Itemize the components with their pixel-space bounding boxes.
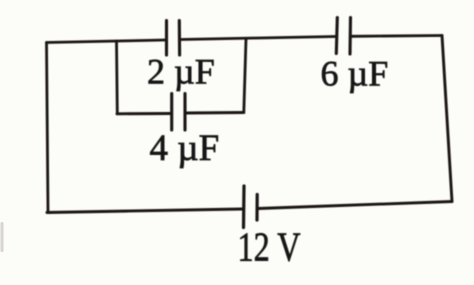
- capacitor C1 (2 uF) right plate: [178, 21, 181, 56]
- capacitor C2 (4 uF) left plate: [170, 94, 173, 131]
- wire: top left segment: [47, 40, 166, 43]
- wire: inner left leg: [115, 41, 119, 114]
- wire: inner bottom left segment: [117, 112, 170, 115]
- svg-text:12 V: 12 V: [238, 224, 301, 270]
- wire: top middle segment: [181, 37, 335, 40]
- battery B1 long plate: [242, 186, 246, 228]
- wire: inner bottom right segment: [187, 111, 244, 114]
- capacitor C3 (6 uF) left plate: [336, 18, 337, 54]
- wire: outer left vertical: [47, 43, 49, 213]
- svg-text:4 µF: 4 µF: [150, 128, 220, 169]
- capacitor C1 (2 uF) left plate: [165, 21, 168, 56]
- wire: top right segment: [352, 34, 443, 38]
- svg-text:6 µF: 6 µF: [321, 54, 389, 94]
- wire: inner right leg: [244, 39, 246, 113]
- wire: outer right vertical: [442, 36, 452, 202]
- battery B1 short plate: [255, 195, 258, 221]
- capacitor C3 (6 uF) right plate: [348, 18, 352, 55]
- svg-text:2 µF: 2 µF: [147, 52, 215, 92]
- capacitor C2 (4 uF) right plate: [183, 94, 186, 131]
- scan smudge left edge: [1, 222, 4, 252]
- wire: outer bottom left segment: [47, 209, 242, 213]
- wire: outer bottom right segment: [259, 202, 453, 209]
